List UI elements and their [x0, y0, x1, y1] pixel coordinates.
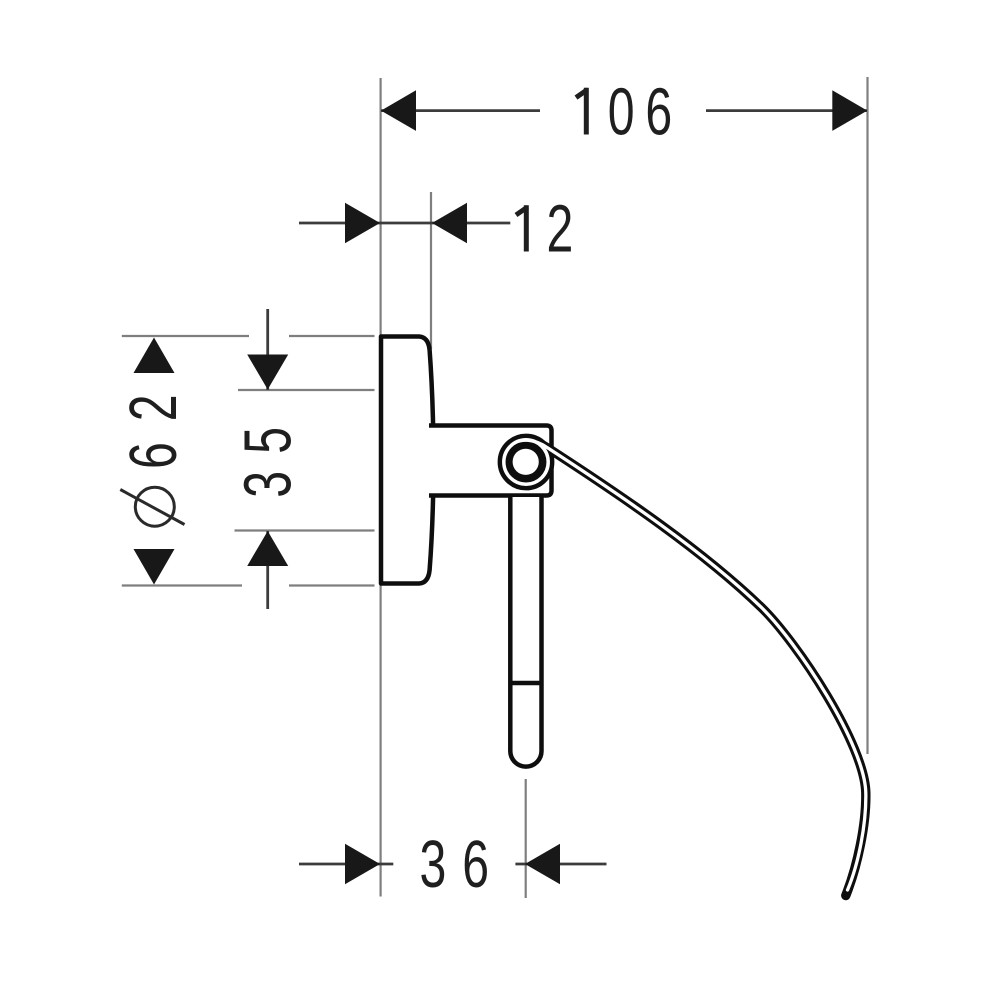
- svg-text:62: 62: [117, 374, 192, 469]
- svg-text:36: 36: [420, 828, 505, 903]
- svg-text:35: 35: [231, 410, 306, 498]
- svg-text:2: 2: [547, 192, 583, 267]
- svg-text:06: 06: [608, 75, 683, 150]
